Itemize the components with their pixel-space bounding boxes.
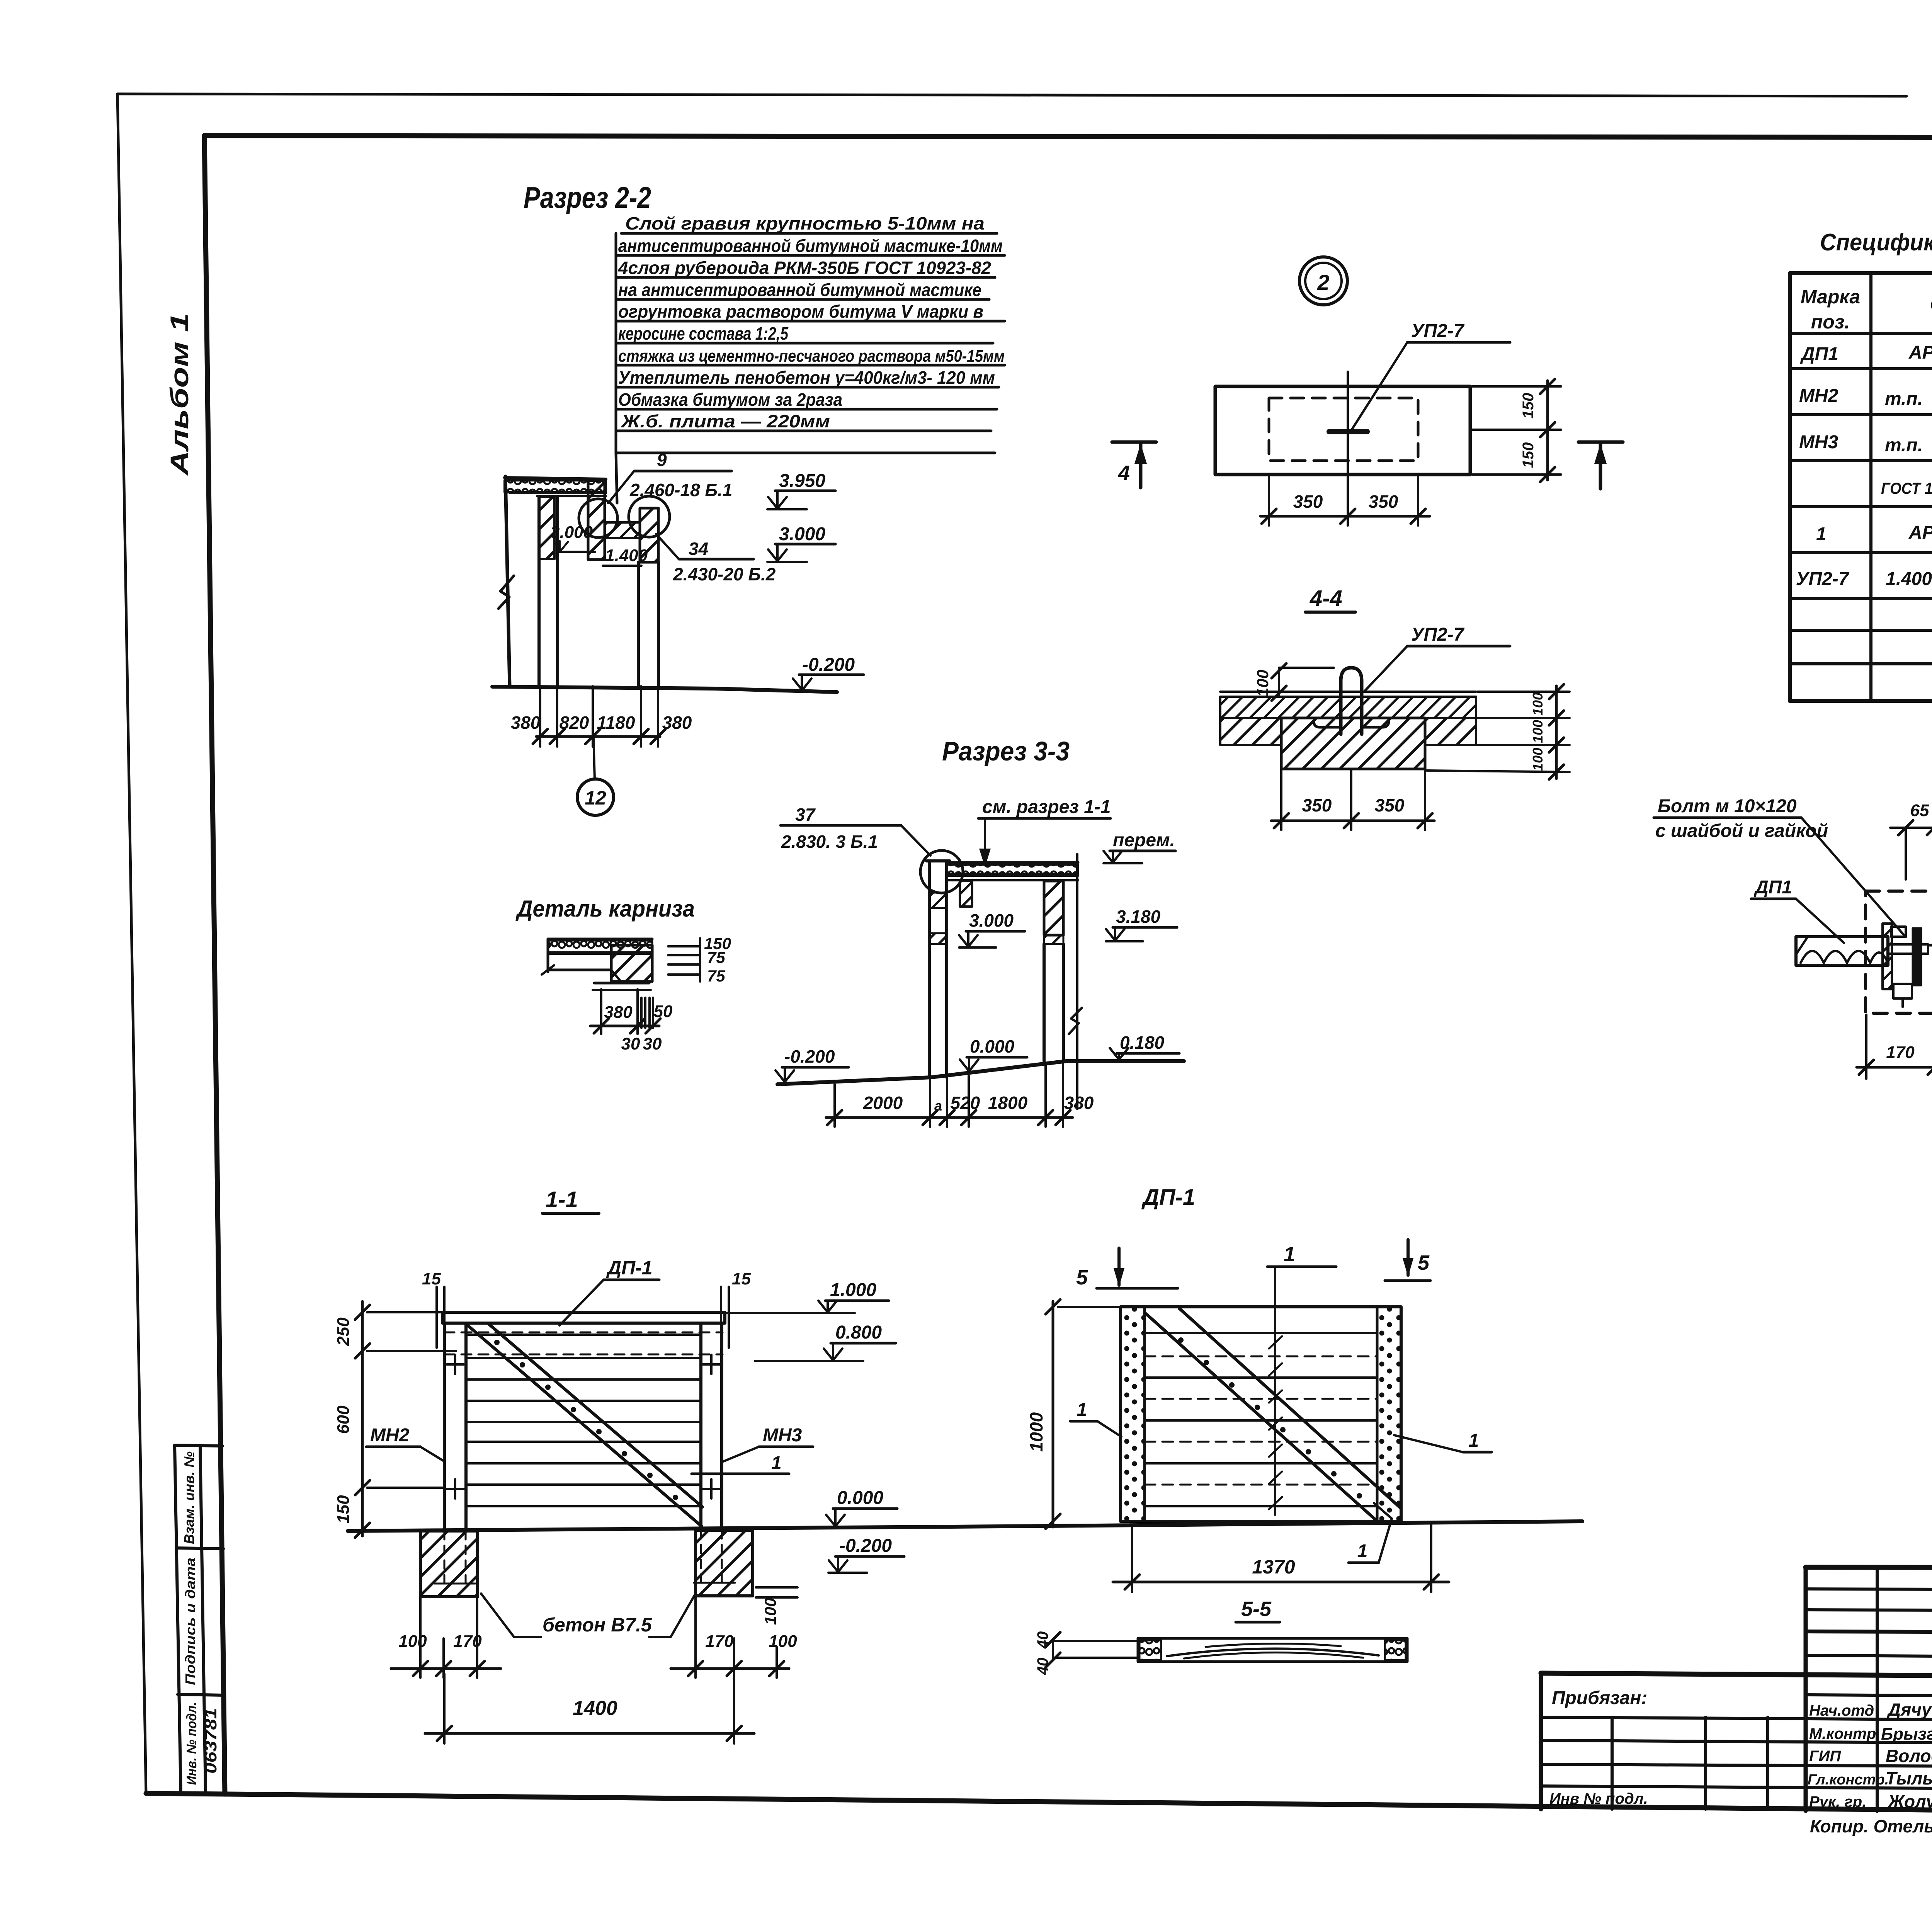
specification table columns xyxy=(1871,273,1932,701)
cornice: ceiling underside xyxy=(548,969,611,971)
detail 2: right extension lines xyxy=(1472,386,1561,475)
sheet outer border top xyxy=(117,94,1906,96)
detail 2: centre axis line xyxy=(1347,372,1349,498)
svg-text:Прибязан:: Прибязан: xyxy=(1552,1688,1647,1708)
svg-text:Тылько: Тылько xyxy=(1886,1768,1932,1788)
svg-text:М.контр.: М.контр. xyxy=(1809,1725,1880,1742)
section 3-3: left post xyxy=(927,859,950,862)
svg-text:30: 30 xyxy=(621,1034,640,1053)
ДП-1: left batten xyxy=(1121,1307,1145,1521)
svg-text:2.830. 3 Б.1: 2.830. 3 Б.1 xyxy=(781,832,878,852)
1-1: bottom dimensions 100 170 left xyxy=(420,1598,477,1678)
cornice: ledge lines xyxy=(594,982,649,985)
svg-text:350: 350 xyxy=(1369,492,1398,512)
section 4-4: lower band left xyxy=(1220,718,1281,745)
svg-text:ГОСТ 11371-78*, СТ СЭВ 3583-82: ГОСТ 11371-78*, СТ СЭВ 3583-82 xyxy=(1881,479,1932,497)
cornice: hatched cornice block xyxy=(611,945,652,981)
svg-text:100: 100 xyxy=(1253,670,1272,697)
1-1: left extension lines xyxy=(367,1312,456,1488)
section 4-4: slab hatched band xyxy=(1220,697,1476,718)
svg-text:Дячук: Дячук xyxy=(1886,1699,1932,1720)
section 2-2: roof gravel band xyxy=(505,480,606,492)
1-1: dashed board lines xyxy=(444,1332,723,1334)
section 2-2: left post xyxy=(537,497,541,686)
svg-text:-0.200: -0.200 xyxy=(802,655,855,675)
svg-text:380: 380 xyxy=(1064,1093,1094,1113)
cornice: right dimension lines 150 75 75 xyxy=(668,938,700,981)
svg-text:Брызгалова: Брызгалова xyxy=(1881,1725,1932,1744)
svg-text:МН2: МН2 xyxy=(1799,386,1838,406)
svg-text:170: 170 xyxy=(705,1632,734,1651)
1-1: boards xyxy=(466,1335,701,1506)
svg-text:ГИП: ГИП xyxy=(1809,1748,1841,1765)
section 2-2: detail circle b xyxy=(629,496,670,537)
svg-text:150: 150 xyxy=(334,1495,353,1524)
svg-text:антисептированной битумной мас: антисептированной битумной мастике-10мм xyxy=(618,236,1003,256)
ДП-1: boards dashed xyxy=(1145,1356,1377,1485)
svg-text:820: 820 xyxy=(560,713,589,733)
section 4-4: right extension lines xyxy=(1427,692,1570,772)
svg-text:1: 1 xyxy=(1469,1431,1479,1451)
svg-text:34: 34 xyxy=(689,539,708,559)
ДП-1: brace bolts xyxy=(1178,1337,1362,1499)
1-1: brace bolts xyxy=(494,1340,678,1500)
section 2-2: wall break mark xyxy=(498,576,514,609)
svg-text:75: 75 xyxy=(707,948,725,966)
section 2-2: dimension line 380 820 1180 380 xyxy=(536,735,660,738)
svg-text:Ж.б. плита — 220мм: Ж.б. плита — 220мм xyxy=(621,411,830,431)
section 3-3: joist block xyxy=(960,881,972,907)
section 4-4: beam block xyxy=(1281,718,1425,769)
ДП-1: section line hatch marks xyxy=(1269,1336,1282,1509)
svg-text:огрунтовка раствором битума V: огрунтовка раствором битума V марки в xyxy=(618,301,983,321)
svg-text:Болт м 10×120: Болт м 10×120 xyxy=(1658,796,1797,816)
detail 2: embedded anchor mark xyxy=(1329,429,1367,434)
svg-text:4-4: 4-4 xyxy=(1310,586,1342,611)
svg-text:-0.200: -0.200 xyxy=(784,1046,835,1067)
svg-text:Утеплитель пенобетон γ=400кг/м: Утеплитель пенобетон γ=400кг/м3- 120 мм xyxy=(618,367,995,388)
detail 1: bolt head washer xyxy=(1891,927,1906,937)
section 2-2: right post xyxy=(637,562,640,686)
section 3-3: roof slab xyxy=(947,861,1078,864)
section 2-2: slab soffit lines xyxy=(510,492,606,494)
svg-text:Инв. № подл.: Инв. № подл. xyxy=(184,1702,199,1785)
ground line under 1-1 and ДП-1 xyxy=(348,1521,1582,1531)
svg-text:а: а xyxy=(934,1098,942,1114)
1-1: top cap board xyxy=(442,1312,725,1323)
1-1: bottom dimensions 170 100 right xyxy=(696,1597,777,1678)
section 2-2: hatched parapet xyxy=(588,481,605,560)
section 4-4: vertical dimension 100 100 100 xyxy=(1555,686,1558,779)
svg-text:1: 1 xyxy=(1357,1541,1368,1561)
1-1: dimension 1400 xyxy=(443,1674,446,1744)
svg-text:37: 37 xyxy=(795,805,816,825)
detail 2: section mark 4 left xyxy=(1112,441,1156,444)
svg-text:65: 65 xyxy=(1910,801,1929,820)
svg-text:с шайбой и гайкой: с шайбой и гайкой xyxy=(1655,821,1828,841)
1-1: vertical dimension 250 600 150 xyxy=(361,1301,364,1536)
detail 2: vertical dimension 150 150 xyxy=(1546,381,1549,480)
svg-text:Обозначение: Обозначение xyxy=(1930,293,1932,316)
svg-text:Нач.отд: Нач.отд xyxy=(1809,1702,1874,1719)
section 4-4: anchor loop УП2-7 xyxy=(1341,668,1362,734)
svg-text:50: 50 xyxy=(654,1002,673,1021)
svg-text:УП2-7: УП2-7 xyxy=(1411,321,1465,341)
title block: signature table columns xyxy=(1877,1568,1932,1812)
title block: прибязан table columns xyxy=(1612,1717,1768,1809)
section 3-3: right extension line xyxy=(1076,854,1078,1109)
section 4-4: screed top lines xyxy=(1220,691,1476,693)
svg-text:12: 12 xyxy=(585,787,606,809)
detail 2: slab plan rectangle xyxy=(1215,386,1470,475)
ДП-1: right batten xyxy=(1377,1307,1401,1521)
svg-text:Инв № подл.: Инв № подл. xyxy=(1549,1790,1648,1807)
section 2-2: roof slab top line xyxy=(505,478,606,479)
detail 1: dashed plate outline xyxy=(1866,891,1932,1013)
roofing notes block ruled lines xyxy=(616,233,1005,453)
svg-text:Марка: Марка xyxy=(1801,286,1860,308)
svg-text:380: 380 xyxy=(604,1003,633,1022)
cornice: bottom extension lines xyxy=(601,989,653,1034)
svg-text:1: 1 xyxy=(1077,1400,1087,1420)
svg-text:Копир. Отельмашук: Копир. Отельмашук xyxy=(1810,1816,1932,1836)
svg-text:5-5: 5-5 xyxy=(1241,1597,1272,1621)
detail 2: dimension 350 350 xyxy=(1260,515,1430,518)
detail 1: bolt shaft xyxy=(1888,944,1928,954)
svg-text:бетон В7.5: бетон В7.5 xyxy=(543,1614,652,1636)
svg-text:1000: 1000 xyxy=(1026,1412,1046,1452)
section 2-2: hatched post top xyxy=(539,497,554,559)
svg-text:100: 100 xyxy=(398,1632,427,1651)
svg-text:063781: 063781 xyxy=(201,1708,220,1774)
svg-text:100: 100 xyxy=(769,1632,797,1651)
svg-text:Жолудь: Жолудь xyxy=(1887,1791,1932,1812)
svg-text:т.п.: т.п. xyxy=(1885,435,1923,456)
svg-text:3.180: 3.180 xyxy=(1116,907,1161,927)
specification table frame xyxy=(1790,273,1932,701)
svg-text:ДП-1: ДП-1 xyxy=(1141,1185,1195,1210)
svg-text:1.000: 1.000 xyxy=(830,1280,876,1300)
cornice: dimension 380 50 xyxy=(590,1025,659,1027)
inner frame left xyxy=(204,136,225,1794)
svg-text:ДП1: ДП1 xyxy=(1800,344,1838,364)
5-5: panel section bar xyxy=(1138,1638,1407,1662)
section 3-3: right wall hatched xyxy=(1044,881,1063,935)
detail 1: bolt plates xyxy=(1883,924,1892,989)
svg-text:170: 170 xyxy=(453,1632,482,1651)
1-1: left foundation xyxy=(420,1531,478,1597)
svg-text:2.460-18 Б.1: 2.460-18 Б.1 xyxy=(629,480,732,500)
inner frame top xyxy=(204,136,1932,138)
svg-text:АР-7: АР-7 xyxy=(1908,522,1932,543)
ДП-1: vertical dimension 1000 xyxy=(1052,1301,1054,1527)
svg-text:керосине состава 1:2,5: керосине состава 1:2,5 xyxy=(618,323,789,344)
ДП-1: panel outline xyxy=(1121,1307,1401,1521)
section 4-4: bottom extension lines xyxy=(1281,769,1425,830)
section 3-3: wall break mark right xyxy=(1069,1008,1082,1034)
svg-text:380: 380 xyxy=(511,713,541,733)
svg-text:перем.: перем. xyxy=(1113,830,1175,850)
svg-text:0.800: 0.800 xyxy=(835,1322,882,1343)
svg-text:350: 350 xyxy=(1375,795,1405,815)
section 2-2: wall left edge xyxy=(505,476,510,686)
svg-text:3.000: 3.000 xyxy=(779,524,825,544)
5-5: wood grain xyxy=(1167,1648,1379,1656)
svg-text:100: 100 xyxy=(1530,720,1546,743)
svg-text:150: 150 xyxy=(1520,442,1537,468)
margin boxes left bottom xyxy=(175,1445,224,1794)
svg-text:МН3: МН3 xyxy=(1799,432,1838,452)
5-5: left board edge view xyxy=(1053,1640,1138,1642)
svg-text:Обмазка битумом за 2раза: Обмазка битумом за 2раза xyxy=(618,390,842,410)
svg-text:Разрез 2-2: Разрез 2-2 xyxy=(524,180,651,214)
svg-text:100: 100 xyxy=(1530,748,1546,771)
svg-text:Гл.констр.: Гл.констр. xyxy=(1808,1772,1889,1788)
svg-text:Подпись и дата: Подпись и дата xyxy=(182,1558,198,1685)
svg-text:2: 2 xyxy=(1317,270,1329,294)
svg-text:380: 380 xyxy=(662,713,692,733)
cornice: gravel band xyxy=(548,941,652,952)
svg-text:40: 40 xyxy=(1034,1631,1051,1649)
svg-text:2000: 2000 xyxy=(863,1093,903,1113)
svg-text:ДП1: ДП1 xyxy=(1753,877,1792,898)
detail bubble 2 xyxy=(1299,257,1347,305)
ДП-1: diagonal brace xyxy=(1146,1314,1376,1520)
detail 2: bottom extension lines xyxy=(1269,475,1418,526)
section 2-2: hatched right column xyxy=(640,508,658,562)
svg-text:УП2-7: УП2-7 xyxy=(1411,624,1465,645)
section 4-4: dim 100 left xyxy=(1278,668,1280,696)
section 4-4: dimension 350 350 xyxy=(1271,820,1434,822)
svg-text:4: 4 xyxy=(1118,461,1130,485)
1-1: right foundation xyxy=(696,1530,753,1596)
svg-text:т.п.: т.п. xyxy=(1885,389,1923,409)
svg-text:30: 30 xyxy=(643,1034,662,1053)
1-1: post dashed in foundations xyxy=(444,1530,722,1586)
section 2-2: dimension extension lines xyxy=(540,686,658,747)
svg-text:9: 9 xyxy=(657,450,667,470)
section 2-2: detail circle a xyxy=(579,499,617,538)
1-1: anchor crosses xyxy=(447,1355,720,1499)
svg-text:520: 520 xyxy=(951,1093,980,1113)
svg-text:Слой гравия крупностью 5-10мм: Слой гравия крупностью 5-10мм на xyxy=(625,213,985,233)
svg-text:3.950: 3.950 xyxy=(779,471,825,491)
section 4-4: lower band right xyxy=(1425,718,1476,745)
svg-text:1400: 1400 xyxy=(573,1697,617,1720)
detail 1: nut below xyxy=(1893,984,1912,998)
inner frame / sheet bottom xyxy=(146,1793,1932,1816)
svg-text:100: 100 xyxy=(1530,692,1546,716)
section 2-2: hatched plank 34 xyxy=(605,522,640,538)
svg-text:3.000: 3.000 xyxy=(969,910,1014,930)
cornice: top line xyxy=(548,938,652,941)
detail 2: section mark 4 right xyxy=(1578,441,1623,444)
svg-text:2.430-20 Б.2: 2.430-20 Б.2 xyxy=(673,564,776,584)
svg-text:МН2: МН2 xyxy=(370,1425,410,1446)
specification table rows xyxy=(1790,333,1932,664)
notes leader to section xyxy=(616,453,617,503)
svg-text:Взам. инв. №: Взам. инв. № xyxy=(181,1451,197,1544)
svg-text:1180: 1180 xyxy=(597,713,635,733)
section 3-3: ground line xyxy=(777,1061,1184,1084)
svg-text:Разрез 3-3: Разрез 3-3 xyxy=(942,736,1070,766)
svg-text:ДП-1: ДП-1 xyxy=(606,1257,653,1279)
cornice: wall edge xyxy=(547,939,549,972)
svg-text:1-1: 1-1 xyxy=(546,1187,578,1212)
svg-text:1800: 1800 xyxy=(988,1093,1028,1113)
svg-text:350: 350 xyxy=(1302,795,1332,815)
section 3-3: dimension line 2000 520 1800 380 xyxy=(826,1116,1073,1119)
svg-text:4слоя рубероида РКМ-350Б ГОСТ: 4слоя рубероида РКМ-350Б ГОСТ 10923-82 xyxy=(618,258,991,278)
1-1: left post xyxy=(443,1323,446,1529)
svg-text:100: 100 xyxy=(761,1598,779,1625)
svg-text:стяжка из цементно-песчаного р: стяжка из цементно-песчаного раствора м5… xyxy=(618,347,1005,366)
svg-text:600: 600 xyxy=(334,1405,353,1434)
svg-text:АР-7: АР-7 xyxy=(1908,342,1932,363)
detail 2: embedded plate dashed outline xyxy=(1269,398,1418,461)
svg-text:1.400 - 9 Б. 1: 1.400 - 9 Б. 1 xyxy=(1886,569,1932,589)
title block: revision grid rows xyxy=(1541,1589,1932,1789)
section 3-3: detail circle xyxy=(920,850,963,893)
svg-text:5: 5 xyxy=(1418,1251,1430,1274)
title block outer frame xyxy=(1541,1567,1932,1813)
svg-text:УП2-7: УП2-7 xyxy=(1796,569,1850,589)
svg-text:5: 5 xyxy=(1076,1266,1088,1289)
1-1: diagonal brace xyxy=(467,1325,702,1526)
section 2-2: axis bubble 12 xyxy=(594,737,595,779)
svg-text:250: 250 xyxy=(334,1317,353,1346)
svg-text:150: 150 xyxy=(1520,393,1537,419)
svg-text:Спецификация элементов стойлов: Спецификация элементов стойлового огражд… xyxy=(1820,229,1932,256)
svg-text:-0.200: -0.200 xyxy=(839,1536,892,1556)
svg-text:350: 350 xyxy=(1293,492,1323,512)
svg-text:170: 170 xyxy=(1886,1043,1915,1062)
svg-text:1: 1 xyxy=(1816,524,1827,544)
svg-text:0.000: 0.000 xyxy=(837,1488,883,1508)
ДП-1: boards solid xyxy=(1145,1333,1377,1506)
svg-text:см. разрез 1-1: см. разрез 1-1 xyxy=(982,797,1111,817)
svg-text:15: 15 xyxy=(732,1269,751,1288)
svg-text:на антисептированной битумной: на антисептированной битумной мастике xyxy=(618,280,981,300)
svg-text:Альбом 1: Альбом 1 xyxy=(165,313,194,476)
section 3-3: right wall lines xyxy=(1043,944,1046,1061)
detail 1: dimension 170 100 xyxy=(1857,1066,1932,1069)
svg-text:Деталь карниза: Деталь карниза xyxy=(515,896,695,922)
section 3-3: dimension extension lines xyxy=(835,1063,1063,1127)
svg-text:0.000: 0.000 xyxy=(970,1036,1015,1056)
svg-text:Рук. гр.: Рук. гр. xyxy=(1809,1793,1866,1810)
svg-text:1: 1 xyxy=(771,1453,782,1473)
svg-text:1.400: 1.400 xyxy=(605,546,648,565)
svg-text:1370: 1370 xyxy=(1252,1556,1295,1578)
5-5: end batten sections xyxy=(1139,1640,1161,1660)
svg-text:поз.: поз. xyxy=(1811,311,1850,333)
cornice: soffit line xyxy=(548,953,652,955)
detail 1: bottom extension lines xyxy=(1866,1001,1932,1079)
1-1: right post xyxy=(699,1323,702,1529)
detail 1: board ДП1 xyxy=(1796,937,1888,965)
svg-text:Володина: Володина xyxy=(1886,1746,1932,1766)
svg-text:МН3: МН3 xyxy=(763,1425,802,1446)
ДП-1: dimension 1370 xyxy=(1131,1526,1133,1592)
1-1: foundation depth 100 xyxy=(756,1586,798,1589)
sheet outer border left xyxy=(117,94,146,1794)
svg-text:3.000: 3.000 xyxy=(550,523,593,542)
svg-text:1: 1 xyxy=(1284,1243,1295,1266)
svg-text:15: 15 xyxy=(422,1269,441,1288)
svg-text:40: 40 xyxy=(1034,1658,1051,1675)
section 2-2: ground line xyxy=(492,687,837,692)
svg-text:75: 75 xyxy=(707,967,725,985)
